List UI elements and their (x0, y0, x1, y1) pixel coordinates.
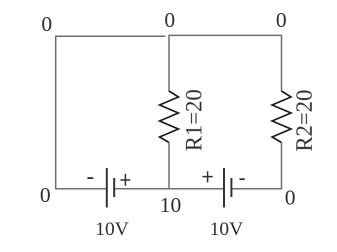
battery V2 short plate (230, 178, 232, 197)
svg-text:10: 10 (160, 193, 182, 217)
wire bottom-left horizontal (55, 188, 106, 190)
battery V1 minus sign (87, 177, 93, 179)
svg-text:10V: 10V (210, 219, 243, 240)
wire left vertical (55, 36, 57, 189)
svg-text:0: 0 (41, 12, 52, 36)
resistor R1 (160, 91, 179, 143)
wire R1 bottom stub (168, 143, 170, 189)
svg-text:0: 0 (164, 8, 175, 32)
svg-text:R2=20: R2=20 (292, 90, 317, 152)
battery V2 minus sign (240, 178, 245, 180)
battery V1 long plate (106, 168, 108, 208)
wire R1 top stub (168, 35, 170, 92)
svg-text:10V: 10V (95, 219, 128, 240)
battery V2 long plate (223, 168, 225, 208)
battery V1 plus sign (120, 174, 130, 186)
wire R2 vertical top (281, 35, 283, 92)
battery V2 plus sign (202, 171, 212, 182)
wire R2 bottom stub (281, 143, 283, 189)
svg-text:R1=20: R1=20 (181, 89, 206, 151)
wire bottom-right horizontal (232, 188, 282, 190)
svg-text:0: 0 (276, 8, 287, 32)
battery V1 short plate (113, 178, 115, 197)
resistor R2 (272, 91, 291, 143)
wire bottom-middle horizontal (115, 188, 224, 190)
svg-text:0: 0 (285, 186, 296, 210)
svg-text:0: 0 (40, 183, 51, 207)
wire top-right horizontal (169, 34, 282, 36)
wire top-left horizontal (55, 35, 165, 37)
